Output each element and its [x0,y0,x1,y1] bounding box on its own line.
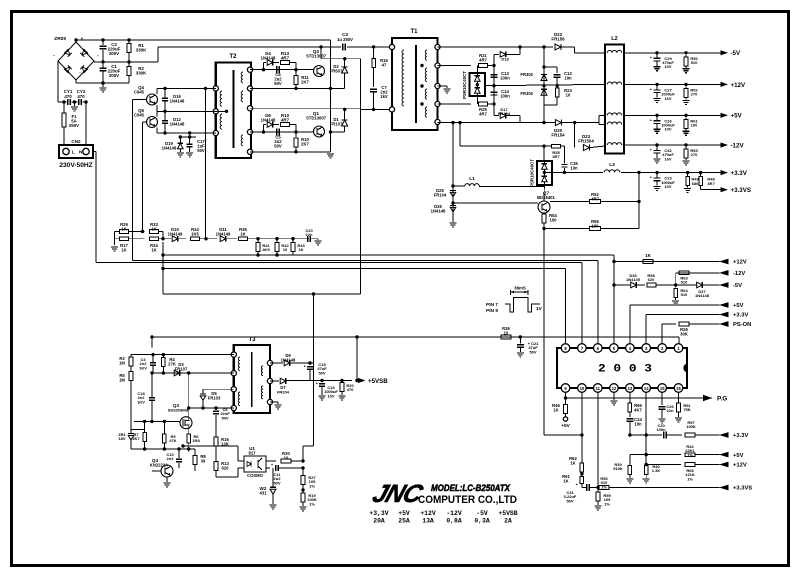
svg-text:47: 47 [382,62,387,67]
svg-text:+5VSB: +5VSB [498,510,517,517]
svg-text:100: 100 [550,217,558,222]
svg-text:1kV: 1kV [380,94,388,99]
svg-text:C945: C945 [134,89,145,94]
svg-text:10: 10 [504,330,509,335]
svg-text:1KV: 1KV [139,365,147,370]
svg-text:1N4149: 1N4149 [168,231,183,236]
svg-text:10: 10 [283,247,288,252]
svg-text:11: 11 [596,386,601,391]
svg-text:FR107: FR107 [330,121,343,126]
svg-text:1u 250V: 1u 250V [337,37,353,42]
svg-text:BD15401: BD15401 [537,195,555,200]
svg-text:330K: 330K [136,48,147,53]
svg-text:100n: 100n [656,427,666,432]
svg-text:10n: 10n [634,421,642,426]
svg-text:10: 10 [580,386,585,391]
svg-text:FR1504: FR1504 [578,139,594,144]
svg-text:PS-ON: PS-ON [733,322,751,328]
svg-text:+5V: +5V [731,113,743,120]
svg-text:910K: 910K [613,466,623,471]
svg-text:50V: 50V [529,349,536,354]
svg-text:1V: 1V [536,306,543,312]
svg-text:2K7: 2K7 [301,141,309,146]
svg-text:30K: 30K [680,331,688,336]
svg-text:16: 16 [676,386,681,391]
svg-text:250V: 250V [69,123,79,128]
svg-text:25A: 25A [398,518,410,525]
svg-text:+5V: +5V [733,303,744,309]
svg-text:620: 620 [648,277,655,282]
svg-text:12: 12 [612,386,617,391]
svg-text:1K: 1K [240,231,245,236]
svg-text:1%: 1% [687,476,693,481]
svg-text:50V: 50V [566,498,573,503]
svg-text:PIN 7: PIN 7 [486,302,498,308]
svg-text:L: L [72,150,75,156]
svg-text:1%: 1% [601,484,607,489]
svg-text:10V: 10V [327,393,334,398]
svg-text:10n: 10n [564,75,572,80]
svg-text:50V: 50V [274,81,282,86]
svg-text:100: 100 [592,223,600,228]
svg-text:4R7: 4R7 [281,118,290,123]
svg-text:1N4148: 1N4148 [170,121,185,126]
svg-text:T3: T3 [248,337,256,343]
svg-text:1K: 1K [151,226,156,231]
svg-text:+: + [271,462,274,467]
svg-text:50V: 50V [274,143,282,148]
svg-text:470: 470 [77,94,85,99]
svg-text:+12V: +12V [733,260,747,266]
svg-text:1K: 1K [151,247,156,252]
svg-text:13: 13 [628,386,633,391]
svg-text:1%: 1% [309,483,315,488]
svg-text:4R7: 4R7 [591,196,599,201]
svg-text:1K: 1K [570,460,575,465]
svg-text:COMPUTER CO.,LTD: COMPUTER CO.,LTD [418,494,517,506]
svg-text:1M: 1M [119,360,125,365]
svg-text:1N4148: 1N4148 [261,56,276,61]
svg-text:10V: 10V [664,127,671,132]
svg-text:22n: 22n [306,232,313,237]
svg-text:4R7: 4R7 [281,56,290,61]
svg-text:+: + [650,175,653,180]
svg-text:470: 470 [64,94,72,99]
svg-text:50V: 50V [197,148,205,153]
svg-text:KN2222A: KN2222A [150,463,168,468]
svg-text:-5V: -5V [733,283,742,289]
svg-text:36mS: 36mS [514,286,526,291]
svg-text:-12V: -12V [731,142,745,149]
svg-text:470: 470 [347,387,354,392]
svg-text:PSR10C40CT: PSR10C40CT [462,71,467,99]
svg-text:FR302: FR302 [520,72,533,77]
svg-text:PSR10C40CT: PSR10C40CT [530,159,535,187]
svg-text:CN2: CN2 [71,139,81,144]
svg-text:1N4149: 1N4149 [216,231,231,236]
svg-text:15: 15 [660,386,665,391]
svg-text:1K: 1K [121,226,126,231]
svg-text:0,3A: 0,3A [474,518,490,525]
svg-text:P.G: P.G [717,396,727,403]
svg-text:47K: 47K [169,438,176,443]
svg-text:1%: 1% [309,501,315,506]
svg-text:+: + [304,364,307,369]
svg-text:-12V: -12V [733,271,745,277]
svg-text:270: 270 [691,92,698,97]
svg-text:1N4149: 1N4149 [626,277,641,282]
svg-text:1%: 1% [687,452,693,457]
svg-text:+: + [650,117,653,122]
svg-text:+: + [650,55,653,60]
svg-text:50V: 50V [221,415,228,420]
svg-text:MODEL:LC-B250ATX: MODEL:LC-B250ATX [431,483,511,494]
svg-text:C945: C945 [134,112,145,117]
svg-text:39: 39 [201,458,206,463]
svg-text:2 0 0 3: 2 0 0 3 [598,364,652,376]
svg-text:10: 10 [284,455,289,460]
svg-text:+3.3VS: +3.3VS [731,187,751,194]
svg-text:510: 510 [691,60,698,65]
svg-text:STD13007: STD13007 [306,54,327,59]
svg-text:+5V: +5V [398,510,410,517]
svg-text:1K: 1K [121,247,126,252]
svg-text:COSMO: COSMO [247,473,264,478]
svg-text:T2: T2 [229,54,237,60]
svg-text:4R7: 4R7 [707,181,715,186]
svg-text:4R7: 4R7 [552,154,560,159]
svg-text:18V: 18V [118,436,125,441]
svg-text:200V: 200V [109,73,119,78]
svg-text:817: 817 [249,451,257,456]
svg-text:1M: 1M [119,377,125,382]
svg-text:10V: 10V [664,184,671,189]
svg-text:SSS2N60B: SSS2N60B [168,408,189,413]
svg-text:T1: T1 [410,29,418,35]
svg-text:431: 431 [260,491,268,496]
svg-text:-: - [53,53,55,59]
svg-text:1K5: 1K5 [191,231,199,236]
svg-text:2K7: 2K7 [301,79,309,84]
svg-text:4R7: 4R7 [479,111,487,116]
svg-text:+: + [650,86,653,91]
svg-text:270: 270 [691,152,698,157]
svg-text:0,8A: 0,8A [446,518,462,525]
svg-text:1K: 1K [645,253,651,258]
svg-text:1N4148: 1N4148 [431,208,446,213]
svg-text:1R8: 1R8 [192,438,200,443]
svg-text:-12V: -12V [446,510,462,517]
svg-text:10n: 10n [570,165,578,170]
svg-text:+3,3V: +3,3V [369,510,388,517]
svg-text:FR154: FR154 [498,111,511,116]
svg-text:L1: L1 [469,176,475,182]
svg-text:FR204: FR204 [277,389,290,394]
svg-text:22n: 22n [667,408,674,413]
svg-text:FR103: FR103 [208,395,221,400]
svg-text:+3.3V: +3.3V [733,433,748,439]
svg-text:75K: 75K [683,407,690,412]
svg-text:330K: 330K [136,71,147,76]
svg-text:680: 680 [692,181,699,186]
svg-text:2K7: 2K7 [132,436,140,441]
svg-text:4K7: 4K7 [634,407,642,412]
svg-text:ZR05: ZR05 [54,36,66,42]
svg-text:FR104: FR104 [434,192,447,197]
svg-text:L3: L3 [609,162,615,168]
svg-text:1KV: 1KV [137,399,145,404]
svg-text:+: + [576,482,579,487]
svg-text:1N4148: 1N4148 [281,357,296,362]
svg-text:200V: 200V [109,51,119,56]
svg-text:+: + [650,147,653,152]
svg-text:510: 510 [681,280,688,285]
svg-text:1.3K: 1.3K [652,468,661,473]
svg-text:4K9: 4K9 [262,247,270,252]
svg-text:+5V: +5V [733,453,744,459]
svg-text:+3.3V: +3.3V [733,313,748,319]
svg-text:13A: 13A [422,518,434,525]
svg-text:10V: 10V [664,64,671,69]
svg-text:1N4148: 1N4148 [695,293,710,298]
svg-text:+12V: +12V [420,510,436,517]
svg-text:1K: 1K [298,247,303,252]
svg-text:16V: 16V [664,156,671,161]
svg-text:-5V: -5V [476,510,488,517]
svg-text:-: - [97,53,99,59]
svg-text:100K: 100K [686,424,696,429]
svg-text:+: + [316,381,319,386]
svg-text:100: 100 [691,123,698,128]
svg-text:16V: 16V [664,96,671,101]
svg-text:+5VSB: +5VSB [368,378,388,385]
svg-text:230V-50HZ: 230V-50HZ [59,162,92,169]
svg-text:1N4148: 1N4148 [261,118,276,123]
svg-text:4R7: 4R7 [479,57,487,62]
svg-text:FR507: FR507 [330,68,343,73]
svg-text:FR156: FR156 [551,37,565,42]
svg-text:50V: 50V [318,370,325,375]
svg-text:D18: D18 [501,57,509,62]
svg-text:FR107: FR107 [175,366,188,371]
svg-text:620: 620 [222,465,230,470]
svg-text:1N4148: 1N4148 [170,98,185,103]
svg-text:510: 510 [681,292,688,297]
svg-text:PIN 9: PIN 9 [486,308,498,314]
svg-text:STD13007: STD13007 [306,116,327,121]
svg-text:+12V: +12V [733,463,747,469]
svg-text:-5V: -5V [731,50,742,57]
svg-text:14: 14 [644,386,649,391]
svg-text:1%: 1% [604,501,610,506]
svg-text:100n: 100n [500,93,510,98]
svg-text:L2: L2 [611,36,617,42]
svg-text:+5V: +5V [561,423,570,429]
svg-text:50V: 50V [273,480,280,485]
svg-text:1N4148: 1N4148 [162,145,177,150]
svg-text:N: N [79,150,83,156]
svg-text:+3.3V: +3.3V [731,170,748,177]
svg-text:100n: 100n [500,75,510,80]
svg-text:1K: 1K [563,478,568,483]
svg-text:+12V: +12V [731,82,746,89]
svg-text:+3.3VS: +3.3VS [733,486,752,492]
svg-text:1K: 1K [553,407,558,412]
svg-text:FR154: FR154 [551,133,565,138]
svg-text:2n2: 2n2 [167,456,175,461]
svg-text:2A: 2A [504,518,512,525]
svg-text:10: 10 [566,92,571,97]
svg-text:FR302: FR302 [520,91,533,96]
svg-text:20A: 20A [373,518,385,525]
